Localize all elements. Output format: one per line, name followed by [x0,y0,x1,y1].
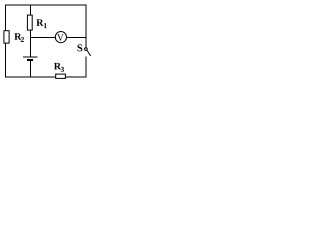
wire middle branch top (top bus to R1) [29,5,31,16]
resistor R3 [56,74,66,78]
label S [77,44,82,51]
wire right branch lower (switch to bottom bus) [85,57,87,78]
label R1 subscript 1 [44,23,47,28]
battery cell GB: long plate [23,56,38,58]
wire middle branch bottom (battery to bottom bus) [29,60,31,77]
label R2 subscript 2 [21,37,24,42]
wire voltmeter lead left (middle branch to V) [30,37,56,39]
switch S: open blade [87,50,91,55]
label R3 letter R [54,63,61,70]
wire left branch (outer, through R2 position) [5,5,7,78]
resistor R1 [27,15,32,30]
wire top bus [5,4,87,6]
switch S: hinge terminal circle [85,48,88,51]
wire middle branch mid (R1 to battery) [29,30,31,57]
wire voltmeter lead right (V to right branch) [66,37,86,39]
voltmeter V face letter [57,34,63,41]
voltmeter V: circle [55,31,66,42]
battery cell GB: short thick plate [27,59,33,61]
label R2 letter R [14,33,21,40]
wire bottom bus [5,76,87,78]
label R3 subscript 3 [61,67,64,72]
resistor R2 [4,31,9,43]
label R1 letter R [36,19,43,26]
wire right branch upper (top bus to switch) [85,5,87,48]
